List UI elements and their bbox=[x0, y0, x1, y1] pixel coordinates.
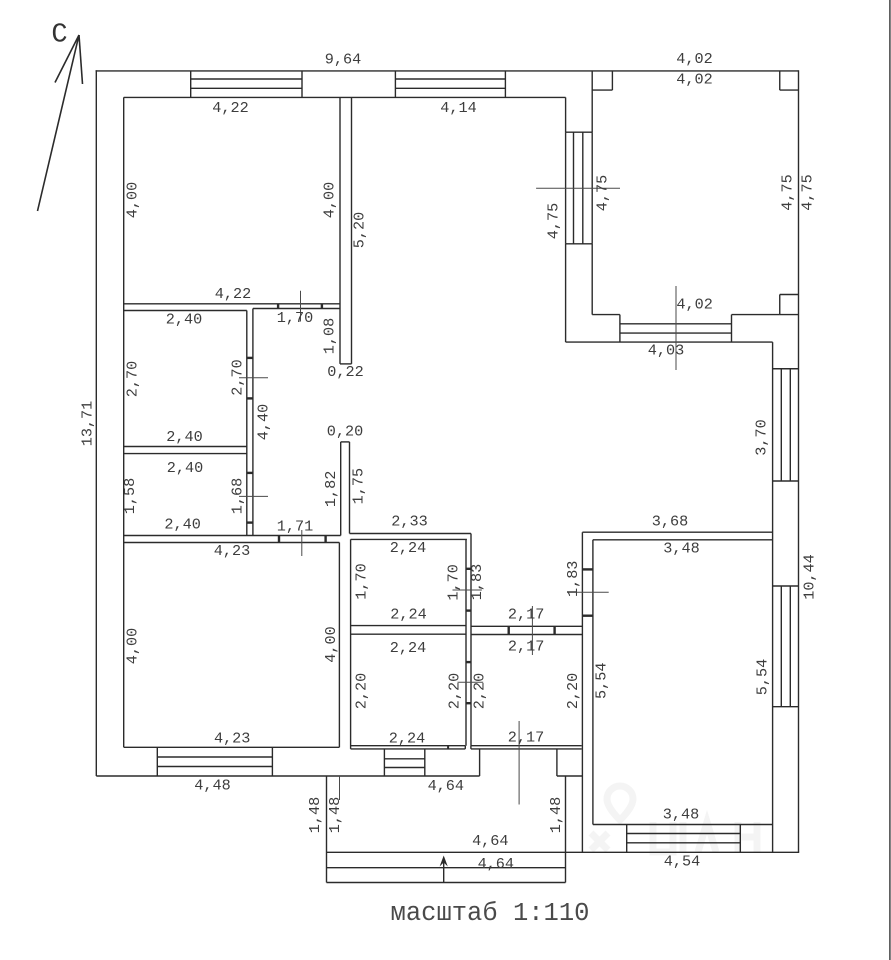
passage wall left bbox=[479, 749, 481, 776]
dim 1,48 porch left a bbox=[306, 797, 324, 833]
svg-text:4,14: 4,14 bbox=[440, 99, 476, 117]
dim 1,70 R5 right bbox=[444, 564, 462, 600]
dim 2,40 R3 bottom bbox=[164, 516, 200, 534]
dim 4,48 bottom-left bbox=[194, 776, 230, 794]
svg-text:4,02: 4,02 bbox=[676, 295, 712, 313]
svg-text:4,75: 4,75 bbox=[779, 174, 797, 210]
svg-text:1,83: 1,83 bbox=[468, 564, 486, 600]
dim 10,44 right wall bbox=[801, 554, 819, 600]
dim 1,68 R3 right bbox=[229, 478, 247, 514]
extension line door R3 bbox=[239, 495, 268, 497]
wall R6 bottom lower bbox=[351, 748, 466, 750]
svg-text:4,54: 4,54 bbox=[664, 853, 700, 871]
svg-text:1,08: 1,08 bbox=[321, 318, 339, 354]
extension line door R1 bbox=[300, 291, 302, 322]
dim 2,20 R7 left bbox=[471, 673, 489, 709]
dim 1,48 porch left b bbox=[326, 797, 344, 833]
extension line door R5 bbox=[453, 589, 482, 591]
wall R7 bottom upper bbox=[471, 745, 582, 747]
svg-text:2,20: 2,20 bbox=[353, 673, 371, 709]
dim 1,70 R5 left bbox=[353, 563, 371, 599]
dim 2,24 R6 bottom bbox=[389, 730, 425, 748]
hall top wall upper bbox=[350, 533, 472, 535]
wall stub top cap bbox=[341, 441, 350, 443]
wall stub line b bbox=[349, 442, 351, 534]
watermark logo (faint) bbox=[591, 786, 757, 852]
wall R2 bottom bbox=[124, 446, 247, 448]
door rung corridor bottom A bbox=[278, 536, 280, 543]
window W9 right wall 5,54 bbox=[773, 586, 799, 707]
dim 1,58 R3 left bbox=[121, 478, 139, 514]
svg-text:2,40: 2,40 bbox=[166, 311, 202, 329]
dim 2,70 R2 right bbox=[229, 359, 247, 395]
svg-text:4,22: 4,22 bbox=[215, 285, 251, 303]
svg-text:2,17: 2,17 bbox=[508, 729, 544, 747]
extension line door R7 bbox=[531, 606, 533, 655]
dim 1,75 stub right bbox=[349, 468, 367, 504]
garage left wall inner upper bbox=[591, 71, 593, 132]
dim 5,54 living right bbox=[753, 659, 771, 695]
dim 2,24 R6 top bbox=[390, 639, 426, 657]
dim 4,02 garage bottom bbox=[676, 295, 712, 313]
door rung R5 B bbox=[466, 609, 471, 611]
dim 4,64 porch step bbox=[478, 855, 514, 873]
window W1 top wall bbox=[191, 71, 302, 98]
wall R1 right line b bbox=[351, 97, 353, 364]
svg-text:2,40: 2,40 bbox=[164, 516, 200, 534]
door rung R3 B bbox=[247, 521, 253, 523]
svg-text:2,24: 2,24 bbox=[390, 606, 426, 624]
outer wall top bbox=[96, 70, 799, 72]
inner wall left vertical bbox=[123, 97, 125, 747]
wall R7 bottom lower bbox=[471, 748, 582, 750]
dim 1,71 corridor door bottom bbox=[277, 518, 313, 536]
living room left wall inner bbox=[592, 540, 594, 825]
right edge border line bbox=[889, 0, 891, 960]
dim 4,02 annex top outside bbox=[676, 50, 712, 68]
dim 4,54 bottom bbox=[664, 853, 700, 871]
wall R7 top upper bbox=[471, 625, 582, 627]
garage bottom wall inner b bbox=[732, 314, 780, 316]
dim 4,02 annex top inside bbox=[676, 71, 712, 89]
wall R5-R6 left bbox=[350, 539, 352, 749]
wall R5-R6 right line b bbox=[470, 534, 472, 746]
dim 4,00 R1 left bbox=[124, 182, 142, 218]
svg-text:9,64: 9,64 bbox=[325, 51, 361, 69]
svg-text:4,00: 4,00 bbox=[124, 182, 142, 218]
wall R1 right line a bbox=[339, 97, 341, 364]
door rung corridor bottom B bbox=[324, 536, 326, 543]
svg-text:4,02: 4,02 bbox=[676, 71, 712, 89]
svg-text:1,58: 1,58 bbox=[121, 478, 139, 514]
north label С bbox=[51, 21, 67, 51]
dim 3,70 right window bbox=[753, 419, 771, 455]
porch bottom bbox=[327, 882, 566, 884]
dim 4,75 garage left b bbox=[594, 175, 612, 211]
svg-text:4,40: 4,40 bbox=[255, 404, 273, 440]
wall R6 bottom cap bbox=[464, 746, 466, 749]
svg-text:3,70: 3,70 bbox=[753, 419, 771, 455]
svg-text:4,23: 4,23 bbox=[214, 542, 250, 560]
extension line W7 bbox=[675, 286, 677, 370]
door rung corridor top B bbox=[321, 304, 323, 309]
dim 2,17 R7 bottom bbox=[508, 729, 544, 747]
svg-text:2,33: 2,33 bbox=[391, 513, 427, 531]
svg-text:4,64: 4,64 bbox=[472, 832, 508, 850]
door rung R3 A bbox=[247, 472, 253, 474]
door rung R6-R7 A bbox=[466, 661, 471, 663]
wall R4 right bbox=[338, 543, 340, 748]
svg-text:1,83: 1,83 bbox=[564, 561, 582, 597]
wall R2 top bbox=[124, 310, 247, 312]
svg-text:0,20: 0,20 bbox=[327, 423, 363, 441]
svg-text:4,03: 4,03 bbox=[648, 342, 684, 360]
dim 2,20 R6 right bbox=[446, 673, 464, 709]
dim 4,03 garage bottom outside bbox=[648, 342, 684, 360]
svg-text:1,48: 1,48 bbox=[326, 797, 344, 833]
scale caption bbox=[391, 899, 590, 928]
svg-text:2,24: 2,24 bbox=[390, 639, 426, 657]
svg-text:13,71: 13,71 bbox=[79, 401, 97, 447]
svg-text:3,48: 3,48 bbox=[663, 540, 699, 558]
dim 4,00 R4 left bbox=[124, 628, 142, 664]
wall R1 bottom bbox=[124, 303, 340, 305]
svg-text:10,44: 10,44 bbox=[801, 554, 819, 600]
svg-text:3,68: 3,68 bbox=[652, 513, 688, 531]
living room left wall outer bbox=[581, 532, 583, 852]
svg-text:4,64: 4,64 bbox=[478, 855, 514, 873]
extension line door R2 bbox=[239, 377, 268, 379]
wall R2-R3 right line a bbox=[246, 311, 248, 536]
svg-text:2,24: 2,24 bbox=[389, 730, 425, 748]
extension line door living bbox=[569, 591, 609, 593]
door rung R6-R7 B bbox=[466, 702, 471, 704]
dim 1,48 porch right bbox=[547, 797, 565, 833]
dim 1,82 stub left bbox=[322, 471, 340, 507]
svg-text:1,75: 1,75 bbox=[349, 468, 367, 504]
garage pier top-left bbox=[592, 71, 612, 90]
garage bottom wall inner a bbox=[592, 314, 620, 316]
dim 0,22 wall bbox=[327, 363, 363, 381]
svg-text:4,75: 4,75 bbox=[799, 174, 817, 210]
wall R6 top bbox=[351, 633, 466, 635]
svg-text:2,24: 2,24 bbox=[390, 539, 426, 557]
garage left wall outer upper bbox=[565, 97, 567, 132]
dim 4,00 R4 right bbox=[322, 626, 340, 662]
svg-text:4,64: 4,64 bbox=[428, 777, 464, 795]
dim 2,24 R5 bottom bbox=[390, 606, 426, 624]
dim 4,64 porch top bbox=[428, 777, 464, 795]
dim 2,20 R7 right bbox=[564, 673, 582, 709]
dim 1,08 wall lower bbox=[321, 318, 339, 354]
dim 0,20 wall bbox=[327, 423, 363, 441]
svg-text:4,00: 4,00 bbox=[124, 628, 142, 664]
dim 4,23 R4 bottom bbox=[214, 729, 250, 747]
window W5 bottom wall bbox=[627, 825, 741, 853]
porch left wall bbox=[326, 776, 328, 883]
dim 4,23 R4 top bbox=[214, 542, 250, 560]
svg-text:1,68: 1,68 bbox=[229, 478, 247, 514]
dim 4,14 W2 bbox=[440, 99, 476, 117]
outer wall left bbox=[95, 70, 97, 776]
window W3 bottom wall bbox=[157, 747, 272, 776]
outer wall bottom-right bbox=[327, 851, 800, 853]
living room top wall outer bbox=[582, 531, 772, 533]
dim 13,71 outer left bbox=[79, 401, 97, 447]
dim 2,40 R2 bottom bbox=[166, 428, 202, 446]
svg-text:0,22: 0,22 bbox=[327, 363, 363, 381]
wall R7 bottom cap bbox=[470, 746, 472, 749]
garage bottom wall outer bbox=[566, 341, 773, 343]
svg-text:5,54: 5,54 bbox=[593, 662, 611, 698]
window W8 right wall 3,70 bbox=[773, 369, 799, 481]
door rung R7 A bbox=[508, 626, 510, 634]
window W2 top wall bbox=[395, 71, 505, 98]
dim 4,75 right wall b bbox=[799, 174, 817, 210]
door rung R2 A bbox=[247, 357, 253, 359]
dim 4,22 R1 top bbox=[212, 99, 248, 117]
outer wall bottom-left segment 2 bbox=[557, 775, 583, 777]
svg-text:2,20: 2,20 bbox=[564, 673, 582, 709]
dim 4,64 porch mid bbox=[472, 832, 508, 850]
wall R3 top bbox=[124, 453, 247, 455]
svg-text:4,00: 4,00 bbox=[322, 626, 340, 662]
dim rung R6 bottom bbox=[447, 746, 449, 749]
extension tick 4,48/4,64 bbox=[339, 776, 341, 800]
svg-text:5,20: 5,20 bbox=[351, 212, 369, 248]
svg-text:2,40: 2,40 bbox=[167, 459, 203, 477]
dim 1,83 hall left bbox=[468, 564, 486, 600]
svg-text:1,70: 1,70 bbox=[444, 564, 462, 600]
door rung living B bbox=[582, 615, 593, 617]
garage left wall inner lower bbox=[591, 244, 593, 315]
dim 5,20 wall bbox=[351, 212, 369, 248]
wall R1 right bottom cap bbox=[340, 363, 352, 365]
extension line porch door bbox=[518, 721, 520, 805]
svg-text:4,23: 4,23 bbox=[214, 729, 250, 747]
living room top wall inner bbox=[593, 539, 773, 541]
garage left wall outer lower bbox=[565, 244, 567, 342]
dim 1,83 living door bbox=[564, 561, 582, 597]
dim 3,68 living wall bbox=[652, 513, 688, 531]
dim 2,17 R7 top bbox=[508, 637, 544, 655]
svg-text:4,75: 4,75 bbox=[545, 203, 563, 239]
svg-text:2,40: 2,40 bbox=[166, 428, 202, 446]
dim 3,48 living bottom bbox=[663, 806, 699, 824]
garage pier top-right bbox=[780, 71, 799, 90]
wall corridor left line b bbox=[252, 309, 254, 536]
svg-text:2,17: 2,17 bbox=[508, 606, 544, 624]
svg-text:3,48: 3,48 bbox=[663, 806, 699, 824]
svg-text:масштаб 1:110: масштаб 1:110 bbox=[391, 899, 590, 928]
svg-text:1,48: 1,48 bbox=[306, 797, 324, 833]
porch step line bbox=[327, 867, 566, 869]
door rung R2 B bbox=[247, 397, 253, 399]
corridor bottom wall lower bbox=[124, 542, 340, 544]
door rung R5 A bbox=[466, 568, 471, 570]
svg-text:1,48: 1,48 bbox=[547, 797, 565, 833]
dim 1,70 corridor door bbox=[277, 309, 313, 327]
svg-text:4,48: 4,48 bbox=[194, 776, 230, 794]
svg-text:2,70: 2,70 bbox=[229, 359, 247, 395]
window W7 garage bottom wall bbox=[620, 315, 732, 343]
door rung living A bbox=[582, 568, 593, 570]
svg-text:1,82: 1,82 bbox=[322, 471, 340, 507]
dim 4,22 R1 bottom bbox=[215, 285, 251, 303]
svg-text:5,54: 5,54 bbox=[753, 659, 771, 695]
wall R4 bottom bbox=[124, 746, 340, 748]
porch entry arrow bbox=[440, 856, 448, 883]
wall R7 top lower bbox=[471, 634, 582, 636]
dim 2,40 R2 top bbox=[166, 311, 202, 329]
dim 4,40 corridor bbox=[255, 404, 273, 440]
dim 4,00 R1 right bbox=[321, 182, 339, 218]
svg-text:4,02: 4,02 bbox=[676, 50, 712, 68]
extension line door corridor bottom bbox=[301, 530, 303, 556]
dim 2,17 hall arm bbox=[508, 606, 544, 624]
svg-text:2,20: 2,20 bbox=[446, 673, 464, 709]
extension line R6-R7 wall bbox=[458, 681, 484, 683]
dim 4,75 right wall a bbox=[779, 174, 797, 210]
dim 5,54 living left bbox=[593, 662, 611, 698]
wall R6 bottom upper bbox=[351, 745, 466, 747]
right wall inner line bbox=[772, 342, 774, 852]
hall top wall lower / R5 top bbox=[351, 538, 467, 540]
svg-text:2,70: 2,70 bbox=[124, 361, 142, 397]
wall R5-R6 right line a bbox=[465, 539, 467, 745]
dim 3,48 living top bbox=[663, 540, 699, 558]
door rung R7 B bbox=[553, 626, 555, 634]
wall R5 bottom bbox=[351, 625, 466, 627]
window W6 garage left wall bbox=[566, 132, 593, 244]
porch right wall bbox=[565, 776, 567, 883]
outer wall right bbox=[798, 70, 800, 852]
dim 2,40 R3 top bbox=[167, 459, 203, 477]
svg-text:2,20: 2,20 bbox=[471, 673, 489, 709]
svg-text:2,17: 2,17 bbox=[508, 637, 544, 655]
dim 2,70 R2 left bbox=[124, 361, 142, 397]
living room bottom inner bbox=[593, 824, 773, 826]
dim 2,24 R5 top bbox=[390, 539, 426, 557]
passage wall right bbox=[556, 749, 558, 776]
svg-text:С: С bbox=[51, 21, 67, 51]
dim 4,75 garage left a bbox=[545, 203, 563, 239]
extension line W6 bbox=[536, 187, 620, 189]
outer wall bottom-left segment bbox=[96, 775, 479, 777]
svg-text:4,22: 4,22 bbox=[212, 99, 248, 117]
window W4 bottom wall bbox=[384, 749, 424, 776]
corridor top wall lower line bbox=[253, 308, 340, 310]
svg-text:4,75: 4,75 bbox=[594, 175, 612, 211]
corridor bottom wall upper bbox=[124, 535, 341, 537]
garage pier bottom-right bbox=[780, 295, 799, 315]
svg-text:4,00: 4,00 bbox=[321, 182, 339, 218]
dim 2,20 R6 left bbox=[353, 673, 371, 709]
inner top wall line bbox=[124, 96, 566, 98]
svg-text:1,70: 1,70 bbox=[353, 563, 371, 599]
svg-text:1,70: 1,70 bbox=[277, 309, 313, 327]
svg-text:1,71: 1,71 bbox=[277, 518, 313, 536]
north arrow symbol bbox=[38, 35, 83, 211]
dim 2,33 hall wall bbox=[391, 513, 427, 531]
wall stub line a bbox=[340, 442, 342, 536]
dim 9,64 top bbox=[325, 51, 361, 69]
door rung corridor top A bbox=[277, 304, 279, 309]
